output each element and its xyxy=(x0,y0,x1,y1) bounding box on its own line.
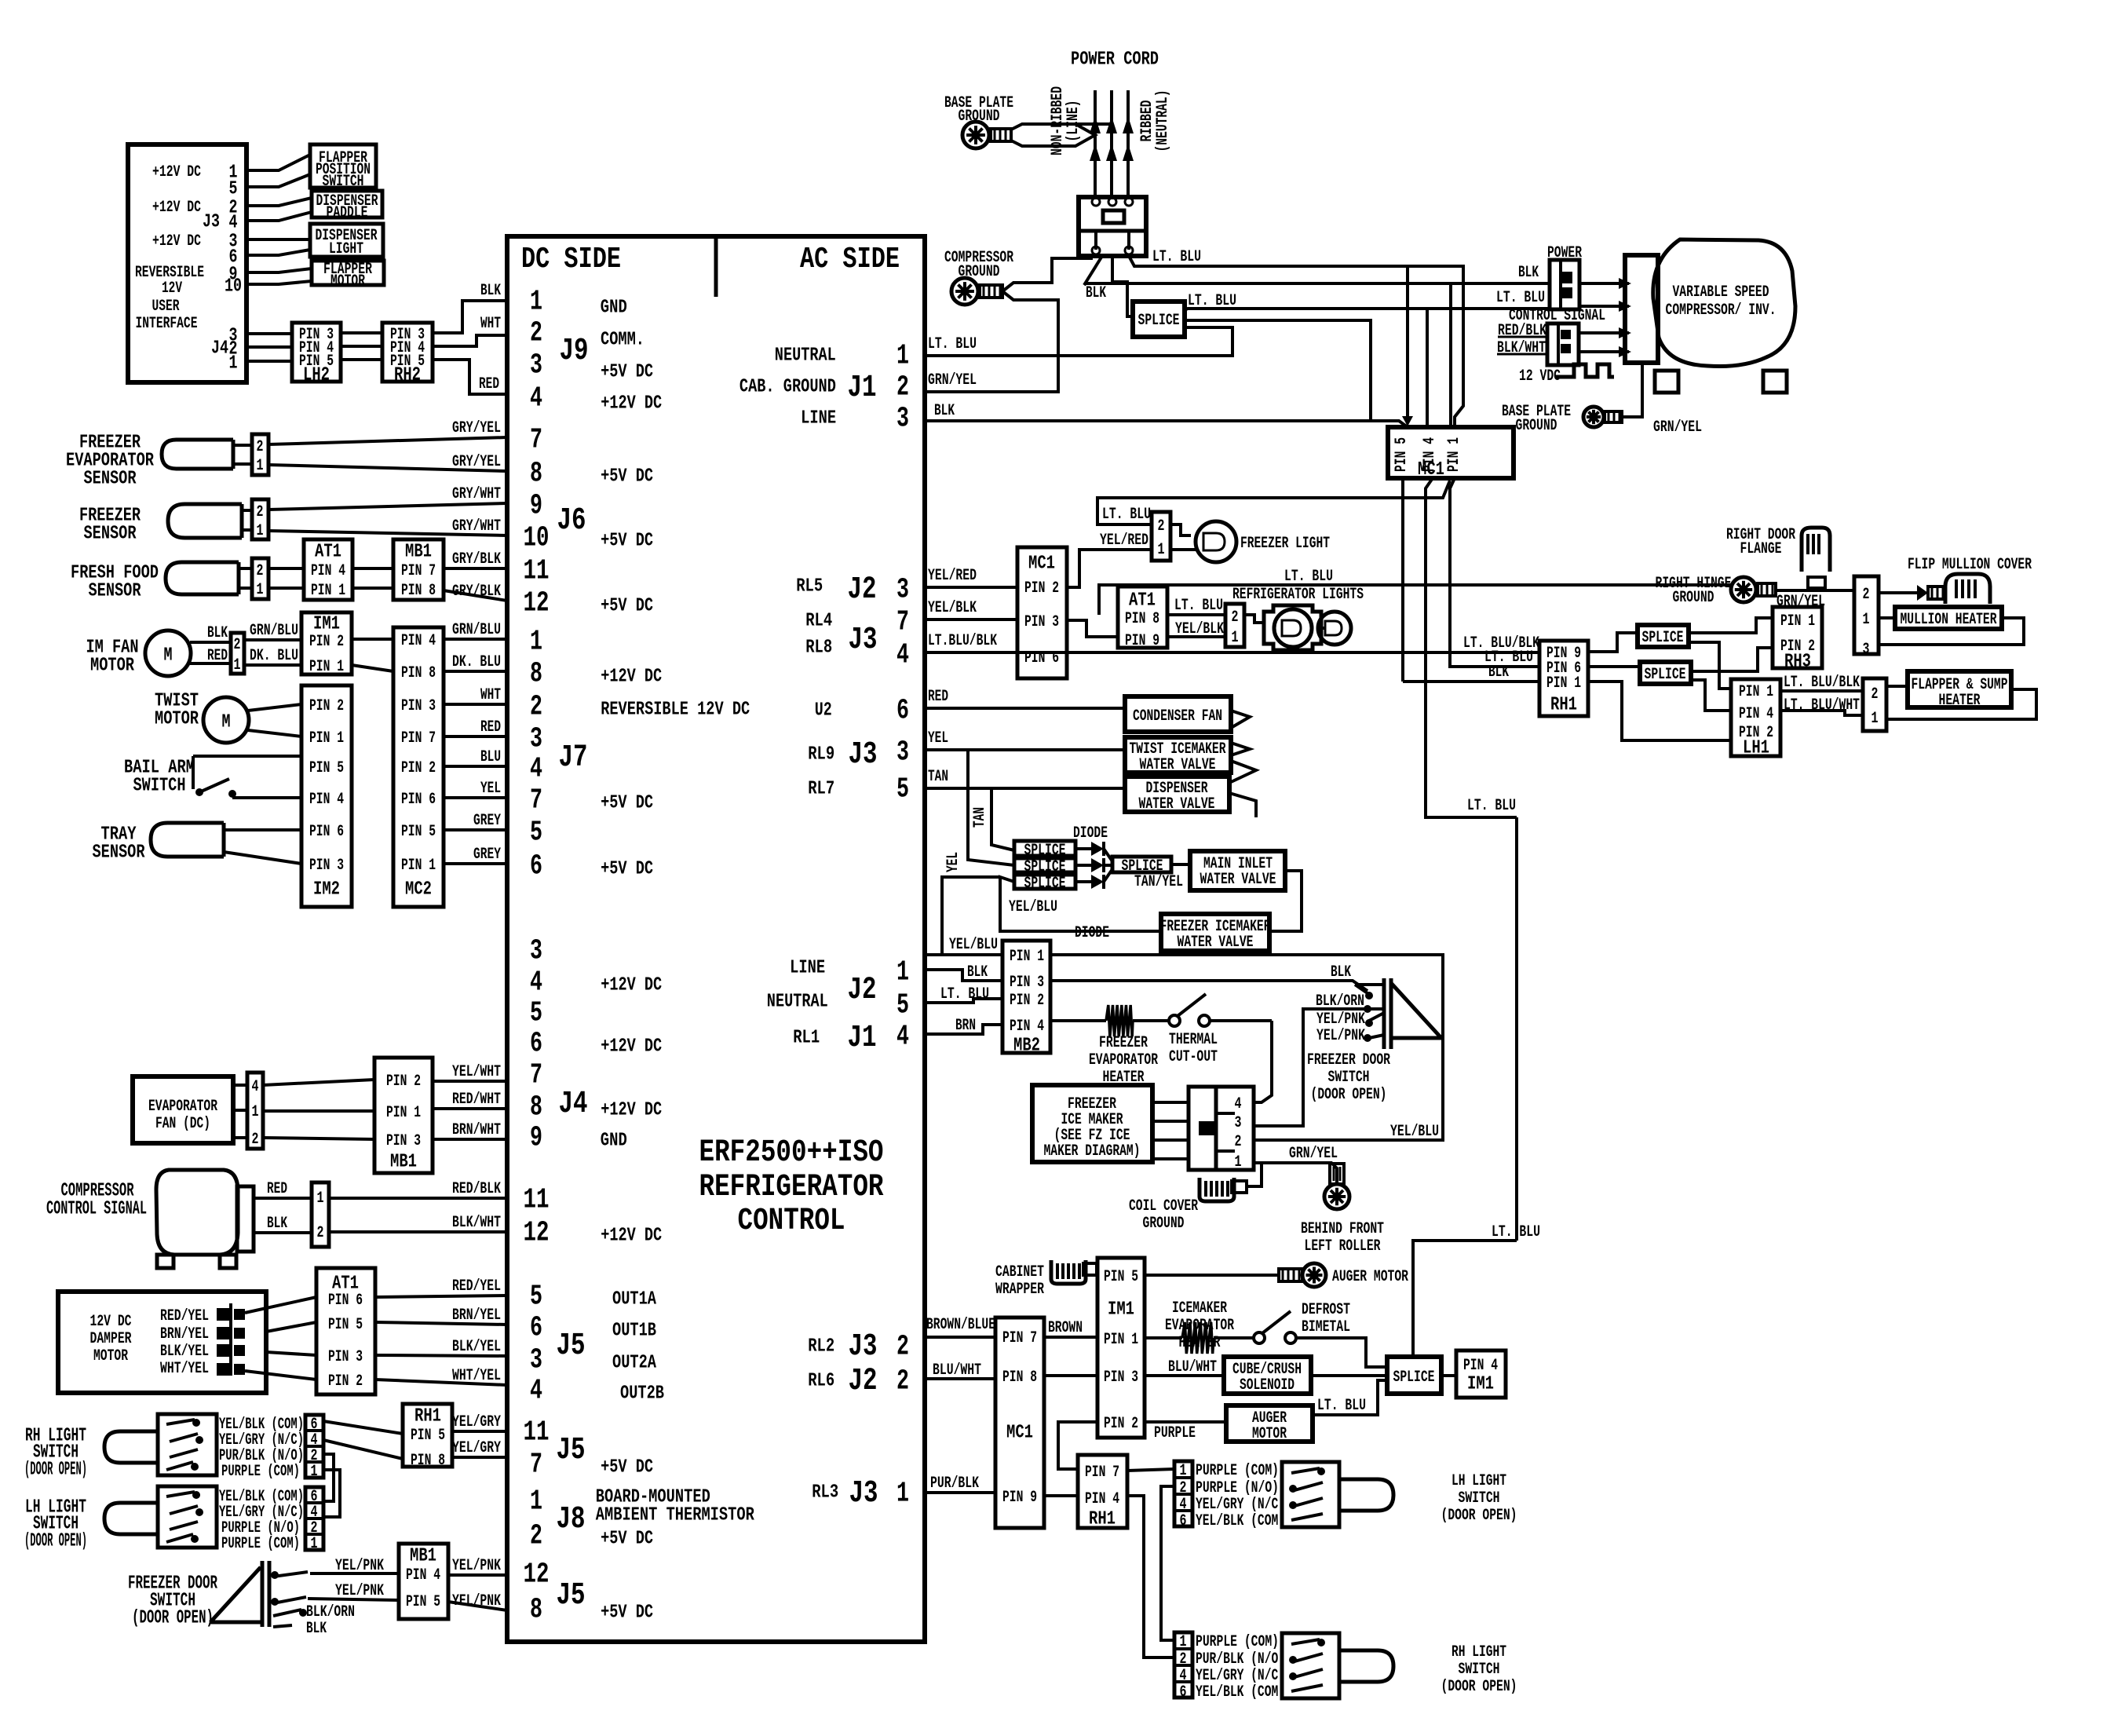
svg-text:PIN 3: PIN 3 xyxy=(1010,974,1044,992)
svg-text:1: 1 xyxy=(234,656,241,674)
flapper position switch box xyxy=(310,144,376,191)
svg-text:MC2: MC2 xyxy=(405,879,432,900)
wire DK.BLU connector to IM1 PIN1 xyxy=(244,647,301,665)
svg-text:PIN 8: PIN 8 xyxy=(411,1452,445,1470)
compressor signal connector 1/2 xyxy=(312,1182,329,1247)
label DC SIDE xyxy=(521,243,621,276)
splice box B (diode) xyxy=(1014,858,1075,876)
label J3 (RL3) xyxy=(849,1476,878,1511)
svg-text:PURPLE (COM): PURPLE (COM) xyxy=(1196,1462,1279,1480)
svg-text:BLU: BLU xyxy=(480,748,501,766)
svg-text:7: 7 xyxy=(530,1449,542,1481)
splice box (IM1 pin4) xyxy=(1387,1357,1441,1394)
svg-text:J5: J5 xyxy=(557,1328,586,1364)
wire splice D to main inlet valve xyxy=(1171,863,1190,866)
svg-text:1: 1 xyxy=(257,457,264,475)
wires damper motor to AT1 pins xyxy=(245,1297,316,1380)
right door flange label xyxy=(1726,526,1795,558)
svg-text:J2: J2 xyxy=(848,572,877,608)
IM fan motor connector 2/1 xyxy=(231,633,244,674)
svg-text:3: 3 xyxy=(530,349,542,382)
svg-text:(DOOR OPEN): (DOOR OPEN) xyxy=(24,1459,87,1480)
wire BROWN/BLUE J3-2 to MC1 PIN7 xyxy=(925,1316,995,1337)
label FREEZER EVAPORATOR HEATER xyxy=(1089,1034,1158,1087)
svg-text:11: 11 xyxy=(524,555,550,587)
svg-text:WHT: WHT xyxy=(480,315,501,333)
svg-text:4: 4 xyxy=(896,639,909,671)
svg-text:USER: USER xyxy=(152,298,180,316)
svg-text:BROWN/BLUE: BROWN/BLUE xyxy=(926,1316,995,1334)
svg-text:12V: 12V xyxy=(162,280,182,298)
svg-text:J1: J1 xyxy=(848,371,877,406)
flip mullion cover coil xyxy=(1879,574,1990,604)
right hinge ground ring terminal xyxy=(1731,577,1776,602)
svg-text:1: 1 xyxy=(1158,541,1165,559)
svg-text:PIN 7: PIN 7 xyxy=(1002,1329,1037,1347)
connector AT1 (damper) xyxy=(316,1268,375,1394)
svg-text:LT. BLU: LT. BLU xyxy=(940,985,989,1003)
icemaker evaporator heater coil xyxy=(1145,1322,1214,1354)
wire GREY MC2 PIN5 to J7-5 xyxy=(444,828,507,831)
wire BLK terminal block slant xyxy=(1084,256,1106,302)
svg-text:2: 2 xyxy=(234,636,241,654)
svg-text:WATER VALVE: WATER VALVE xyxy=(1200,871,1276,889)
svg-text:FAN (DC): FAN (DC) xyxy=(155,1115,210,1133)
svg-text:6: 6 xyxy=(530,1312,542,1344)
svg-text:PIN 4: PIN 4 xyxy=(311,562,345,580)
svg-text:BLK: BLK xyxy=(1086,284,1106,302)
RH light switch bulb (right) xyxy=(1339,1650,1393,1682)
svg-text:SWITCH: SWITCH xyxy=(323,173,364,191)
power cord terminal block xyxy=(1079,197,1146,256)
svg-text:+5V DC: +5V DC xyxy=(601,595,653,616)
connector IM2 tall xyxy=(301,685,352,907)
wires evaporator fan to connector xyxy=(233,1085,247,1138)
wire LT. BLU auger motor to splice xyxy=(1313,1380,1387,1415)
svg-text:2: 2 xyxy=(317,1224,324,1242)
svg-text:SWITCH: SWITCH xyxy=(1459,1489,1500,1508)
svg-text:J2: J2 xyxy=(848,973,877,1008)
svg-text:6: 6 xyxy=(530,1028,542,1060)
svg-text:J4: J4 xyxy=(559,1087,588,1122)
svg-text:8: 8 xyxy=(530,1594,542,1626)
wire RH1 PIN4 down to RH switch cell2 xyxy=(1127,1496,1174,1657)
wire YEL/WHT MB1 PIN2 to J4-7 xyxy=(433,1080,507,1083)
svg-text:SWITCH: SWITCH xyxy=(1328,1069,1370,1087)
svg-text:9: 9 xyxy=(530,490,542,522)
wire BLK compressor to connector 2 xyxy=(254,1215,312,1233)
svg-text:1: 1 xyxy=(530,1486,542,1518)
svg-text:TAN/YEL: TAN/YEL xyxy=(1134,873,1183,891)
svg-text:YEL/RED: YEL/RED xyxy=(928,567,977,585)
svg-text:5: 5 xyxy=(530,817,542,849)
svg-text:FLIP MULLION COVER: FLIP MULLION COVER xyxy=(1908,556,2032,574)
wire YEL J3-3 to twist icemaker valve xyxy=(925,729,1125,750)
svg-text:1: 1 xyxy=(317,1190,324,1208)
wire UI pin1 to flapper position switch xyxy=(246,155,310,170)
svg-text:RL2: RL2 xyxy=(808,1336,834,1357)
svg-text:2: 2 xyxy=(1863,586,1870,604)
svg-text:PIN 3: PIN 3 xyxy=(401,697,436,715)
wire purple branch to RH1 PIN7 xyxy=(1058,1422,1097,1469)
svg-text:+5V DC: +5V DC xyxy=(601,1528,653,1549)
auger motor box xyxy=(1226,1405,1313,1443)
svg-text:4: 4 xyxy=(229,212,238,233)
wire LH2 to RH2 PIN4 xyxy=(341,345,382,348)
svg-text:PIN 2: PIN 2 xyxy=(1024,579,1059,598)
wire defrost bimetal to splice xyxy=(1296,1338,1387,1367)
label REFRIGERATOR LIGHTS xyxy=(1232,586,1364,604)
wire UI pin6 to dispenser light xyxy=(246,250,310,255)
svg-text:12: 12 xyxy=(524,1217,550,1249)
svg-text:8: 8 xyxy=(530,1091,542,1124)
label POWER CORD xyxy=(1071,49,1159,70)
splice box D (main inlet) xyxy=(1112,857,1171,875)
wire terminal block middle pin down to splice xyxy=(1112,256,1133,316)
LH light switch contact labels (left) xyxy=(219,1488,304,1553)
svg-text:RL3: RL3 xyxy=(812,1482,838,1503)
svg-text:2: 2 xyxy=(1180,1650,1187,1668)
wire RED/WHT MB1 PIN1 to J4-8 xyxy=(433,1107,507,1110)
wire RED/BLK connector to J4-11 xyxy=(329,1197,507,1200)
svg-text:PIN 4: PIN 4 xyxy=(1739,705,1773,723)
svg-text:LT.BLU/BLK: LT.BLU/BLK xyxy=(928,632,997,650)
wire YEL/RED J2-3 to MC1 PIN2 xyxy=(925,567,1017,587)
svg-text:PURPLE (COM): PURPLE (COM) xyxy=(1196,1633,1279,1651)
label AUGER MOTOR (top) xyxy=(1332,1268,1408,1286)
svg-text:1: 1 xyxy=(311,1535,318,1553)
svg-text:FREEZER: FREEZER xyxy=(1099,1034,1148,1052)
wire tray sensor to IM2 PIN6 xyxy=(224,828,301,831)
auger motor ring terminal (top) xyxy=(1279,1263,1326,1287)
label J3 xyxy=(203,211,220,232)
svg-text:2: 2 xyxy=(530,691,542,723)
dispenser light box xyxy=(310,224,383,258)
wire BRN J1-4 to MB2 PIN4 xyxy=(925,1017,1002,1035)
svg-text:MB2: MB2 xyxy=(1013,1035,1040,1056)
svg-text:2: 2 xyxy=(896,1331,909,1363)
svg-text:RH1: RH1 xyxy=(1089,1508,1116,1530)
svg-text:YEL/BLU: YEL/BLU xyxy=(1390,1123,1439,1141)
wire YEL/GRY RH1 PIN5 to J5-11 xyxy=(452,1430,507,1433)
svg-text:OUT1B: OUT1B xyxy=(612,1320,656,1341)
tray sensor bulb xyxy=(151,823,224,857)
label J3 (RL4/RL8) xyxy=(849,623,878,658)
dispenser water valve box xyxy=(1125,777,1229,813)
svg-text:3: 3 xyxy=(1863,641,1870,659)
base plate ground fork wire to power cord xyxy=(1011,124,1112,146)
svg-text:LH2: LH2 xyxy=(303,364,330,386)
svg-text:GRN/YEL: GRN/YEL xyxy=(1289,1145,1338,1163)
label AC SIDE xyxy=(800,243,900,276)
diode D3 xyxy=(1075,869,1112,889)
RH switch connector cells 1/2/4/6 (right) xyxy=(1174,1632,1192,1701)
connector RH1 (bottom right) xyxy=(1078,1455,1127,1530)
svg-text:11: 11 xyxy=(524,1416,550,1449)
svg-text:BRN/YEL: BRN/YEL xyxy=(452,1307,501,1325)
svg-text:PIN 7: PIN 7 xyxy=(1085,1464,1119,1482)
connector LH2 xyxy=(292,323,341,386)
diode D1 xyxy=(1075,842,1112,861)
label LH LIGHT SWITCH (DOOR OPEN) right xyxy=(1441,1472,1517,1525)
svg-text:BLK/YEL: BLK/YEL xyxy=(452,1338,501,1356)
wire BLU/WHT IM1 PIN3 to cube/crush xyxy=(1145,1358,1224,1376)
connector MB1 (evap fan) xyxy=(374,1058,433,1173)
svg-text:PIN 2: PIN 2 xyxy=(386,1073,421,1091)
wire connector1 to mullion heater xyxy=(1879,616,1895,619)
svg-text:(DOOR OPEN): (DOOR OPEN) xyxy=(1441,1678,1517,1696)
svg-text:1: 1 xyxy=(1180,1462,1187,1480)
svg-text:YEL/GRY (N/C): YEL/GRY (N/C) xyxy=(1196,1496,1285,1514)
svg-text:GRY/BLK: GRY/BLK xyxy=(452,550,501,568)
IM fan motor label xyxy=(86,637,139,676)
label ICEMAKER EVAPORATOR HEATER xyxy=(1165,1299,1234,1352)
label J2 (RL6) xyxy=(849,1364,878,1399)
wire RH cell4 to RH1 PIN8 xyxy=(323,1440,403,1459)
defrost bimetal switch xyxy=(1214,1311,1296,1343)
svg-text:YEL/BLK (COM): YEL/BLK (COM) xyxy=(1196,1683,1285,1701)
svg-text:FLANGE: FLANGE xyxy=(1740,540,1782,558)
svg-text:PIN 3: PIN 3 xyxy=(386,1132,421,1150)
LH switch contact labels (right) xyxy=(1196,1462,1285,1530)
svg-text:4: 4 xyxy=(1235,1095,1242,1113)
wire flapper connector2 to heater box xyxy=(1886,685,1908,688)
door mullion connector 2/1/3 xyxy=(1854,576,1879,659)
svg-text:CONDENSER FAN: CONDENSER FAN xyxy=(1133,707,1222,725)
damper motor stepper pin symbol xyxy=(217,1303,245,1376)
svg-text:6: 6 xyxy=(1180,1683,1187,1701)
wire MC1 PIN8 to IM1 PIN3 xyxy=(1044,1374,1097,1377)
LH light switch bulb (left) xyxy=(104,1503,158,1534)
svg-text:WATER VALVE: WATER VALVE xyxy=(1140,756,1216,774)
svg-text:YEL/RED: YEL/RED xyxy=(1100,532,1148,550)
DC side signal name labels (GND COMM +5V +12V OUT...) xyxy=(596,297,754,1623)
base plate ground label (right) xyxy=(1502,403,1571,435)
svg-text:GROUND: GROUND xyxy=(1516,417,1557,435)
svg-text:PIN 6: PIN 6 xyxy=(328,1292,363,1310)
svg-text:RED/BLK: RED/BLK xyxy=(452,1180,501,1198)
svg-text:GND: GND xyxy=(601,297,627,318)
svg-text:8: 8 xyxy=(530,658,542,690)
svg-text:LT. BLU: LT. BLU xyxy=(1188,292,1236,310)
svg-text:3: 3 xyxy=(896,736,909,769)
svg-text:J5: J5 xyxy=(557,1433,586,1468)
svg-text:ICEMAKER: ICEMAKER xyxy=(1172,1299,1227,1318)
svg-text:MC1: MC1 xyxy=(1028,553,1055,574)
svg-text:J3: J3 xyxy=(203,211,220,232)
svg-text:SENSOR: SENSOR xyxy=(84,523,137,544)
svg-text:+12V DC: +12V DC xyxy=(152,163,201,181)
wire RH cell6 to RH1 PIN5 xyxy=(323,1421,403,1434)
svg-text:BLK: BLK xyxy=(267,1215,287,1233)
wire LT. BLU AT1 PIN8 to lights connector xyxy=(1167,597,1225,615)
condenser/valve right chevron links xyxy=(1229,711,1256,817)
compressor ground label xyxy=(944,249,1013,281)
svg-text:PIN 8: PIN 8 xyxy=(1125,610,1159,628)
wire MC1 PIN9 to RH1 PIN4 xyxy=(1044,1494,1078,1497)
svg-text:9: 9 xyxy=(530,1122,542,1154)
wire fan connector1 to MB1 PIN1 xyxy=(263,1109,374,1113)
svg-text:VARIABLE SPEED: VARIABLE SPEED xyxy=(1673,283,1769,302)
wire LT. BLU net down to splice top xyxy=(1413,1241,1517,1357)
connector RH2 xyxy=(382,323,433,386)
right door flange coil xyxy=(1802,528,1830,590)
svg-text:NEUTRAL: NEUTRAL xyxy=(767,991,828,1012)
label FREEZER LIGHT xyxy=(1240,535,1330,553)
svg-text:PIN 8: PIN 8 xyxy=(401,582,436,600)
svg-text:RL6: RL6 xyxy=(808,1370,834,1391)
svg-text:LEFT ROLLER: LEFT ROLLER xyxy=(1305,1237,1381,1255)
wire splice2 to LH1 PIN4 xyxy=(1691,680,1731,711)
wire UI J4-2 to LH2 PIN4 xyxy=(246,345,292,349)
svg-text:1: 1 xyxy=(257,581,264,599)
svg-text:YEL/BLK: YEL/BLK xyxy=(928,599,977,617)
wire MC1 PIN4 vertical LT. BLU down to water valve loop xyxy=(1426,478,1540,1241)
svg-text:LT. BLU: LT. BLU xyxy=(1467,797,1516,815)
connector MB2 xyxy=(1002,941,1050,1056)
wire twist motor to IM2 PIN2 xyxy=(248,704,301,711)
svg-text:PIN 2: PIN 2 xyxy=(309,633,344,651)
svg-text:J9: J9 xyxy=(560,334,589,369)
svg-text:M: M xyxy=(164,645,173,666)
wire fan connector4 to MB1 PIN2 xyxy=(263,1080,374,1085)
wire splice2 to RH3 PIN2 xyxy=(1691,648,1773,671)
wire UI pin4 to dispenser paddle xyxy=(246,212,312,221)
cabinet wrapper ground clamp xyxy=(1051,1260,1097,1284)
wire RED MC2 PIN7 to J7-3 xyxy=(444,735,507,738)
svg-text:REVERSIBLE 12V DC: REVERSIBLE 12V DC xyxy=(601,699,750,720)
wire splice1 to RH3 PIN1 xyxy=(1689,618,1773,633)
svg-text:5: 5 xyxy=(896,773,909,806)
connector label J8 xyxy=(557,1502,586,1537)
svg-text:BLK: BLK xyxy=(480,282,501,300)
svg-text:CONTROL: CONTROL xyxy=(738,1204,845,1239)
svg-text:AC SIDE: AC SIDE xyxy=(800,243,900,276)
power cord conductor wires with arrows xyxy=(1090,90,1134,197)
svg-text:8: 8 xyxy=(530,458,542,490)
compressor control signal label xyxy=(46,1180,147,1219)
wire LT. BLU/BLK LH1 PIN1 to flapper connector xyxy=(1780,674,1863,692)
svg-text:J6: J6 xyxy=(557,503,586,539)
svg-text:RH LIGHT: RH LIGHT xyxy=(1452,1643,1506,1661)
svg-text:4: 4 xyxy=(252,1078,259,1096)
wire BLK IM fan to connector xyxy=(190,624,231,642)
svg-text:TAN: TAN xyxy=(928,768,948,786)
svg-text:TAN: TAN xyxy=(971,807,989,828)
damper motor wire color labels xyxy=(160,1307,209,1378)
svg-text:1: 1 xyxy=(896,956,909,989)
wire MC1 PIN3 to AT1 PIN9 xyxy=(1067,620,1118,637)
svg-text:AUGER MOTOR: AUGER MOTOR xyxy=(1332,1268,1408,1286)
twist icemaker water valve box xyxy=(1125,737,1231,774)
wire UI pin2 to dispenser paddle xyxy=(246,198,312,206)
svg-text:DC SIDE: DC SIDE xyxy=(521,243,621,276)
control board main box ERF2500 outline xyxy=(507,236,925,1642)
svg-text:+5V DC: +5V DC xyxy=(601,530,653,551)
svg-text:LT. BLU: LT. BLU xyxy=(1152,248,1201,266)
wire LT. BLU splice to power connector and MC1 PIN4 xyxy=(1185,292,1550,427)
RH light switch label (left) xyxy=(24,1425,87,1480)
svg-text:12: 12 xyxy=(524,1559,550,1591)
wire YEL/RED MC1 PIN2 to freezer light xyxy=(1067,532,1152,587)
svg-text:POWER CORD: POWER CORD xyxy=(1071,49,1159,70)
svg-text:IM1: IM1 xyxy=(1108,1299,1134,1320)
svg-text:12V DC: 12V DC xyxy=(90,1313,132,1331)
wire UI pin9 to flapper motor xyxy=(246,269,312,272)
wire splice to PIN4 IM1 xyxy=(1441,1374,1456,1377)
svg-text:IM1: IM1 xyxy=(1467,1373,1494,1394)
LH light switch label (left) xyxy=(24,1497,87,1551)
svg-text:1: 1 xyxy=(896,1478,909,1510)
svg-text:GROUND: GROUND xyxy=(1143,1215,1185,1233)
svg-text:IM1: IM1 xyxy=(313,613,340,634)
wire MC1 PIN5 vertical to BLK RH1 PIN1 xyxy=(1403,478,1539,682)
wire BLK/YEL AT1 PIN3 to J5-3 xyxy=(375,1355,507,1356)
svg-text:BLK/WHT: BLK/WHT xyxy=(452,1214,501,1232)
svg-text:GRN/BLU: GRN/BLU xyxy=(250,622,298,640)
label J4 (user interface) xyxy=(211,338,228,359)
fresh food sensor label xyxy=(71,562,159,601)
AC side relay/signal labels (NEUTRAL LINE RL...) xyxy=(739,345,838,1503)
wire GRN/YEL base plate ground to inverter xyxy=(1622,363,1702,437)
svg-text:J3: J3 xyxy=(849,1476,878,1511)
wire GRN/YEL J1-2 to compressor ground xyxy=(925,371,1058,392)
svg-text:RED: RED xyxy=(207,647,228,665)
wire IM1 PIN1 to MC2 PIN8 xyxy=(352,665,393,671)
AC side pin numbers column xyxy=(896,340,909,1510)
svg-text:(NEUTRAL): (NEUTRAL) xyxy=(1154,90,1172,152)
svg-text:REFRIGERATOR LIGHTS: REFRIGERATOR LIGHTS xyxy=(1232,586,1364,604)
wire freezer evap sensor pin2 to J6-7 xyxy=(233,437,507,445)
svg-text:PIN 5: PIN 5 xyxy=(309,759,344,777)
wire GRN/YEL right hinge to door connector xyxy=(1776,590,1854,611)
connector MB1 (freezer door switch) xyxy=(399,1544,448,1619)
svg-text:6: 6 xyxy=(1180,1512,1187,1530)
svg-text:GRY/YEL: GRY/YEL xyxy=(452,419,501,437)
svg-text:1: 1 xyxy=(1871,710,1879,728)
wire LH2 to RH2 PIN3 xyxy=(341,331,382,334)
svg-text:SPLICE: SPLICE xyxy=(1138,312,1180,330)
behind front left roller ground ring xyxy=(1324,1164,1349,1209)
svg-text:FREEZER DOOR: FREEZER DOOR xyxy=(1307,1051,1390,1069)
svg-text:MOTOR: MOTOR xyxy=(90,655,134,676)
base plate ground ring terminal (top) xyxy=(962,122,1011,148)
bracket LH cell2 to RH cell1 xyxy=(1161,1486,1174,1640)
label RED/BLK underlined xyxy=(1498,322,1547,340)
wire BLU MC2 PIN2 to J7-4 xyxy=(444,765,507,768)
RH switch connector cells 6/4/2/1 (left) xyxy=(305,1415,323,1481)
wire GRN/BLU connector to IM1 PIN2 xyxy=(244,622,301,640)
svg-text:BLK/YEL: BLK/YEL xyxy=(160,1343,209,1361)
svg-text:SENSOR: SENSOR xyxy=(93,842,145,863)
wire RED/YEL AT1 PIN6 to J5-5 xyxy=(375,1296,507,1297)
connector label J4 xyxy=(559,1087,588,1122)
connector MB1 (sensor) xyxy=(393,539,444,600)
svg-text:2: 2 xyxy=(530,1520,542,1552)
svg-text:CAB. GROUND: CAB. GROUND xyxy=(739,376,836,397)
svg-text:1: 1 xyxy=(229,353,238,374)
svg-text:J3: J3 xyxy=(849,737,878,773)
svg-text:CABINET: CABINET xyxy=(995,1263,1044,1281)
svg-text:REFRIGERATOR: REFRIGERATOR xyxy=(699,1170,884,1205)
svg-text:PIN 4: PIN 4 xyxy=(401,632,436,650)
svg-text:PIN 9: PIN 9 xyxy=(1002,1489,1037,1507)
condenser fan box xyxy=(1125,696,1231,732)
svg-text:GREY: GREY xyxy=(473,812,501,830)
svg-text:YEL/PNK: YEL/PNK xyxy=(1316,1011,1365,1029)
svg-text:PIN 1: PIN 1 xyxy=(1739,683,1773,701)
connector PIN 4 IM1 box xyxy=(1456,1350,1506,1398)
